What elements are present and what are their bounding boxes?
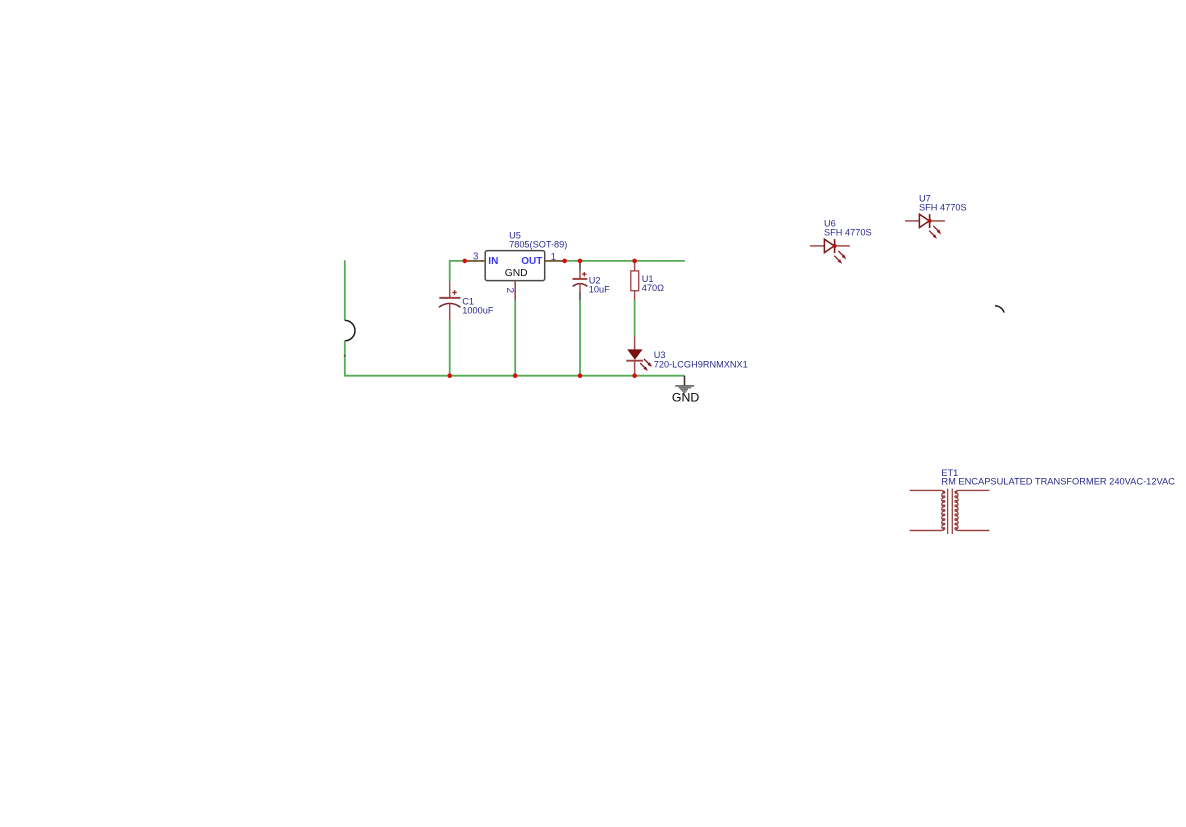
- svg-text:SFH 4770S: SFH 4770S: [824, 228, 872, 238]
- svg-text:720-LCGH9RNMXNX1: 720-LCGH9RNMXNX1: [654, 359, 748, 369]
- junction dot top pin3: [463, 259, 468, 264]
- junction dot top U2: [578, 259, 583, 264]
- wire: U5 pin2 vertical green: [514, 300, 516, 376]
- svg-text:3: 3: [473, 251, 479, 262]
- svg-text:1: 1: [551, 252, 557, 263]
- photodiode U7: [905, 214, 945, 239]
- capacitor U2: [573, 261, 588, 301]
- junction dot bottom U2: [578, 373, 583, 378]
- photodiode U6: [810, 239, 850, 264]
- svg-text:7805(SOT-89): 7805(SOT-89): [509, 240, 567, 250]
- junction dot bottom C1: [447, 373, 452, 378]
- wire: left vertical lower segment: [344, 341, 346, 377]
- capacitor C1: [439, 282, 461, 321]
- ground GND: [672, 376, 699, 405]
- wire: top rail: [450, 260, 685, 262]
- svg-text:RM ENCAPSULATED TRANSFORMER 24: RM ENCAPSULATED TRANSFORMER 240VAC-12VAC: [941, 476, 1175, 486]
- svg-text:470Ω: 470Ω: [642, 283, 664, 293]
- svg-text:OUT: OUT: [521, 256, 542, 267]
- transformer ET1: [910, 489, 990, 534]
- junction dot top pin1: [562, 259, 567, 264]
- svg-text:GND: GND: [505, 268, 528, 279]
- junction dot bottom U3: [632, 373, 637, 378]
- wire hop arc on left vertical: [345, 320, 355, 340]
- wire: left vertical upper segment: [344, 260, 346, 320]
- wire: U1 to U3 vertical green: [634, 300, 636, 336]
- wire: C1 top vertical: [449, 260, 451, 282]
- U5 pin 3 wire: [465, 260, 485, 262]
- junction dot top U1: [632, 259, 637, 264]
- U5 pin 2 wire: [514, 281, 516, 300]
- junction dot bottom pin2: [513, 373, 518, 378]
- svg-text:2: 2: [504, 288, 515, 294]
- wire: U2 bottom vertical green: [579, 301, 581, 376]
- wire: bottom rail: [344, 375, 684, 377]
- stray arc: [995, 306, 1004, 313]
- unconnected pin tick: [344, 355, 346, 357]
- wire: C1 bottom vertical: [449, 320, 451, 376]
- U5 pin 1 wire: [545, 260, 565, 262]
- resistor U1: [631, 261, 639, 300]
- svg-text:GND: GND: [672, 391, 699, 405]
- svg-text:IN: IN: [488, 256, 498, 267]
- LED U3: [626, 336, 652, 376]
- svg-text:1000uF: 1000uF: [462, 306, 494, 316]
- svg-text:10uF: 10uF: [589, 285, 610, 295]
- IC U5 7805 regulator: [485, 251, 545, 281]
- svg-text:SFH 4770S: SFH 4770S: [919, 203, 967, 213]
